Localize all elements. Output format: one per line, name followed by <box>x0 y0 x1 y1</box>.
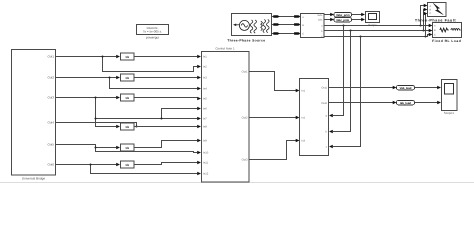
wire goto Iab to Scope1 <box>415 101 442 104</box>
svg-text:powergui: powergui <box>146 35 159 39</box>
bus tap b down to U3 <box>329 31 351 134</box>
svg-text:In12: In12 <box>203 173 209 176</box>
svg-text:1/z: 1/z <box>125 76 129 80</box>
svg-text:Control Note 1: Control Note 1 <box>215 46 235 50</box>
powergui block <box>137 25 169 40</box>
goto label Iab_load <box>397 101 415 106</box>
bus tap a down to U3 <box>329 26 344 118</box>
svg-text:Universal Bridge: Universal Bridge <box>22 177 46 181</box>
wire row2 <box>56 77 198 79</box>
arrows into SB blocks <box>116 55 120 166</box>
wire source C to measurement <box>272 32 301 35</box>
svg-text:In6: In6 <box>203 108 207 111</box>
svg-text:Out3: Out3 <box>242 159 248 162</box>
wire U2 Out1 to U3 In1 <box>249 72 300 93</box>
wire row5 <box>56 141 198 148</box>
svg-text:Fixed RL Load: Fixed RL Load <box>432 39 461 43</box>
svg-text:C: C <box>434 34 436 37</box>
svg-text:Iabc_prim: Iabc_prim <box>336 19 349 22</box>
bus tap b up to fault <box>424 8 428 31</box>
scope block Scope <box>366 12 380 28</box>
svg-text:In3: In3 <box>302 140 306 143</box>
wire source A to measurement <box>272 15 301 18</box>
svg-text:Out1: Out1 <box>47 55 54 59</box>
svg-text:Out2: Out2 <box>47 76 54 80</box>
wire Iabc to goto <box>324 18 334 21</box>
svg-text:Out2: Out2 <box>321 102 327 105</box>
svg-text:In4: In4 <box>203 88 207 91</box>
svg-text:Vabc: Vabc <box>317 14 323 17</box>
rate transition blocks SB1-SB6 <box>121 53 135 168</box>
wire source B to measurement <box>272 23 301 26</box>
svg-text:In5: In5 <box>203 98 207 101</box>
wire goto Vabc to scope <box>352 13 366 16</box>
svg-text:C: C <box>430 12 432 15</box>
svg-text:Vabc_prim: Vabc_prim <box>336 14 350 17</box>
three-phase fault block <box>415 3 457 23</box>
frame bottom line <box>0 182 474 184</box>
wire Vabc to goto <box>324 13 334 16</box>
svg-text:In3: In3 <box>203 77 207 80</box>
svg-text:In7: In7 <box>203 118 207 121</box>
svg-text:Out1: Out1 <box>242 71 248 74</box>
port arrows into U2 <box>197 55 201 175</box>
goto label Vabc_prim <box>334 13 352 18</box>
three-phase source block <box>227 14 271 43</box>
svg-text:In1: In1 <box>302 90 306 93</box>
fixed RL load block <box>432 23 461 44</box>
wire row2 branch <box>109 77 198 89</box>
svg-text:In8: In8 <box>203 126 207 129</box>
svg-text:Out5: Out5 <box>47 143 54 147</box>
wire U3 Out2 to goto <box>329 101 397 104</box>
svg-text:Iab_load: Iab_load <box>400 102 411 105</box>
subsystem U1 inverter bridge block <box>12 50 56 181</box>
svg-text:In11: In11 <box>203 162 209 165</box>
wire U2 Out2 to U3 In2 <box>249 116 300 119</box>
wire row6 <box>56 163 198 165</box>
svg-text:In2: In2 <box>203 66 207 69</box>
goto label Vab_load <box>397 86 415 91</box>
svg-text:1/z: 1/z <box>125 146 129 150</box>
svg-text:Three-Phase Source: Three-Phase Source <box>227 38 265 42</box>
svg-text:In9: In9 <box>203 140 207 143</box>
wire row5 branch <box>95 147 198 153</box>
svg-text:Out3: Out3 <box>47 96 54 100</box>
wire row6 branch <box>90 164 198 174</box>
wire U2 Out3 to U3 In3 <box>249 139 300 160</box>
bus wire phase c <box>324 33 433 38</box>
wire goto Vab to Scope1 <box>415 86 442 89</box>
bus wire phase b <box>324 29 433 32</box>
wire row4 <box>56 118 198 128</box>
wire row1 branch <box>102 56 198 72</box>
svg-text:In10: In10 <box>203 152 209 155</box>
svg-text:1/z: 1/z <box>125 55 129 59</box>
wire row3 <box>56 97 198 99</box>
svg-text:Out2: Out2 <box>242 117 248 120</box>
bus tap a up to fault <box>421 4 428 26</box>
svg-text:Out6: Out6 <box>47 163 54 167</box>
svg-text:1/z: 1/z <box>125 96 129 100</box>
wire row3 branch <box>95 97 198 120</box>
wire row1 <box>56 56 198 58</box>
svg-text:In1: In1 <box>203 56 207 59</box>
svg-text:1/z: 1/z <box>125 125 129 129</box>
svg-text:Ts = 5e-005 s.: Ts = 5e-005 s. <box>143 30 162 34</box>
svg-text:Vab_load: Vab_load <box>400 87 412 90</box>
svg-text:1/z: 1/z <box>125 163 129 167</box>
svg-text:Out4: Out4 <box>47 121 54 125</box>
three-phase V-I measurement block <box>301 14 325 39</box>
wire U3 Out1 to goto <box>329 86 397 89</box>
bus tap c down to U3 <box>329 37 361 149</box>
bus wire phase a <box>324 24 433 27</box>
svg-text:In2: In2 <box>302 117 306 120</box>
svg-text:C: C <box>302 33 304 36</box>
bus tap c up to fault <box>424 12 428 37</box>
svg-text:Iabc: Iabc <box>318 18 323 21</box>
subsystem U2 control block <box>202 46 250 182</box>
wire goto Iabc to scope <box>352 18 366 21</box>
goto label Iabc_prim <box>334 18 352 23</box>
svg-text:Out1: Out1 <box>321 86 327 89</box>
subsystem U3 measurement subsystem <box>300 79 329 156</box>
scope block Scope1 <box>442 80 458 115</box>
svg-text:Scope1: Scope1 <box>444 111 455 115</box>
